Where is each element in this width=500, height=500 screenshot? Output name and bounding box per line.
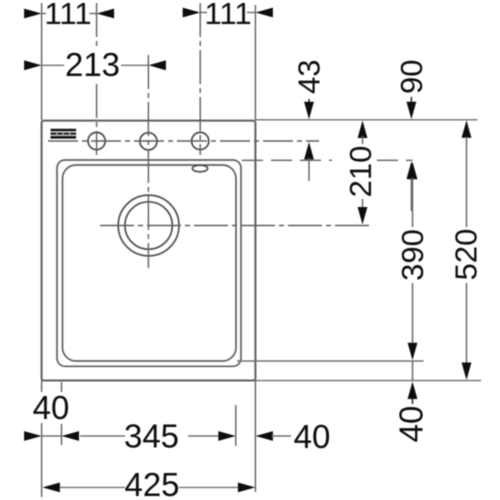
svg-text:40: 40	[33, 389, 70, 426]
drain inner circle	[125, 202, 172, 249]
ext line bowl-left bottom	[61, 382, 63, 445]
ext line bowl top to right (dashed)	[242, 159, 413, 161]
svg-text:90: 90	[394, 60, 429, 94]
dim 90: arrows	[410, 97, 412, 104]
svg-text:210: 210	[343, 146, 378, 198]
logo plate	[51, 129, 77, 139]
dim 40 bottom-right vertical: line and arrow	[412, 361, 414, 381]
svg-text:345: 345	[124, 418, 179, 455]
centerline drain horizontal	[100, 225, 373, 227]
svg-text:390: 390	[395, 229, 430, 281]
dim 213: line	[42, 64, 148, 66]
dim 111 left: line	[42, 13, 96, 15]
dim 390: arrows and line	[408, 162, 418, 180]
dim 213 arrows	[24, 60, 41, 70]
centerline hole1 vertical	[96, 3, 98, 155]
extension line left edge top	[41, 3, 43, 120]
sink outer rectangle	[42, 121, 256, 381]
ext line sink top to right	[256, 119, 478, 121]
dim 40 bottom-left: line and arrows	[42, 435, 61, 437]
svg-text:111: 111	[204, 0, 251, 31]
dim 345: line and arrows	[80, 435, 219, 437]
faucet hole 1	[88, 132, 105, 149]
svg-text:425: 425	[124, 466, 179, 500]
dim 43: arrows	[308, 99, 310, 104]
dim 111 right: line	[201, 12, 256, 14]
overflow oval	[192, 165, 207, 172]
centerline through holes (horizontal)	[48, 140, 319, 142]
ext line right edge bottom	[254, 381, 256, 492]
ext line bowl bottom to right	[237, 360, 424, 362]
faucet hole 2	[140, 133, 157, 150]
svg-text:40: 40	[392, 406, 429, 443]
bowl inner rounded rect	[63, 165, 237, 361]
centerline hole3 vertical	[199, 3, 201, 155]
dim 111 right arrows	[183, 8, 201, 18]
svg-text:520: 520	[449, 229, 484, 281]
dim 111 left arrows	[24, 9, 41, 19]
dim 520: arrows and line	[462, 120, 472, 138]
drain outer circle	[118, 195, 179, 256]
extension line right edge top	[254, 5, 256, 120]
bowl outer rounded rect	[57, 160, 241, 366]
svg-text:43: 43	[292, 60, 327, 94]
ext line left edge bottom	[41, 381, 43, 497]
svg-text:111: 111	[44, 0, 91, 31]
svg-text:40: 40	[294, 418, 331, 455]
dim 425: line and arrows	[60, 486, 239, 488]
dim 40 bottom-middle-right: arrow and tail	[255, 431, 273, 441]
dim 210: arrows and line	[358, 121, 368, 139]
centerline hole2/drain vertical	[147, 55, 149, 268]
ext line bowl-right bottom	[235, 405, 237, 446]
faucet hole 3	[192, 132, 209, 149]
svg-text:213: 213	[65, 46, 120, 83]
ext line sink bottom to right	[256, 380, 481, 382]
